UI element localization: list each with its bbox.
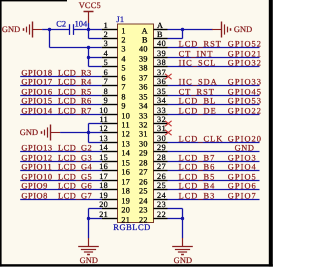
svg-text:40: 40 bbox=[157, 39, 166, 48]
svg-text:37: 37 bbox=[157, 68, 166, 77]
svg-text:GPIO22: GPIO22 bbox=[228, 107, 262, 116]
svg-text:LCD_R3: LCD_R3 bbox=[58, 69, 92, 78]
svg-text:6: 6 bbox=[121, 73, 125, 82]
svg-text:14: 14 bbox=[99, 143, 108, 152]
svg-text:40: 40 bbox=[139, 44, 148, 53]
svg-text:10: 10 bbox=[121, 111, 130, 120]
svg-text:27: 27 bbox=[139, 167, 148, 176]
svg-text:GPIO53: GPIO53 bbox=[228, 97, 262, 106]
svg-text:CT_INT: CT_INT bbox=[179, 50, 214, 59]
svg-text:LCD_R5: LCD_R5 bbox=[58, 88, 92, 97]
svg-text:9: 9 bbox=[121, 101, 125, 110]
svg-text:4: 4 bbox=[104, 49, 108, 58]
svg-text:18: 18 bbox=[121, 186, 130, 195]
svg-text:LCD_B6: LCD_B6 bbox=[179, 163, 216, 172]
svg-text:28: 28 bbox=[157, 153, 166, 162]
svg-text:31: 31 bbox=[157, 124, 166, 133]
svg-text:104: 104 bbox=[75, 19, 88, 28]
svg-text:GPIO15: GPIO15 bbox=[21, 97, 52, 106]
svg-text:GPIO7: GPIO7 bbox=[228, 192, 257, 201]
svg-text:13: 13 bbox=[121, 139, 130, 148]
svg-text:38: 38 bbox=[139, 63, 148, 72]
svg-text:25: 25 bbox=[157, 181, 166, 190]
svg-text:28: 28 bbox=[139, 158, 148, 167]
svg-text:GPIO3: GPIO3 bbox=[228, 154, 257, 163]
svg-text:18: 18 bbox=[99, 181, 108, 190]
svg-text:21: 21 bbox=[121, 215, 130, 224]
svg-text:36: 36 bbox=[139, 82, 148, 91]
svg-text:8: 8 bbox=[104, 87, 108, 96]
svg-text:12: 12 bbox=[99, 124, 108, 133]
svg-text:24: 24 bbox=[157, 191, 166, 200]
svg-text:LCD_R4: LCD_R4 bbox=[58, 78, 92, 87]
svg-text:35: 35 bbox=[139, 92, 148, 101]
svg-text:CT_RST: CT_RST bbox=[179, 88, 215, 97]
svg-text:33: 33 bbox=[139, 111, 148, 120]
svg-text:5: 5 bbox=[104, 58, 108, 67]
svg-text:15: 15 bbox=[121, 158, 130, 167]
svg-text:25: 25 bbox=[139, 186, 148, 195]
svg-text:3: 3 bbox=[121, 44, 125, 53]
svg-text:4: 4 bbox=[121, 54, 125, 63]
svg-text:J1: J1 bbox=[116, 15, 124, 24]
svg-text:LCD_G7: LCD_G7 bbox=[58, 192, 92, 201]
svg-text:LCD_G5: LCD_G5 bbox=[58, 173, 92, 182]
svg-text:26: 26 bbox=[139, 177, 148, 186]
svg-text:23: 23 bbox=[157, 200, 166, 209]
svg-text:39: 39 bbox=[157, 49, 166, 58]
svg-text:GPIO5: GPIO5 bbox=[228, 173, 257, 182]
svg-text:22: 22 bbox=[139, 215, 148, 224]
svg-text:27: 27 bbox=[157, 162, 166, 171]
svg-text:3: 3 bbox=[104, 39, 108, 48]
svg-text:13: 13 bbox=[99, 134, 108, 143]
svg-text:GPIO4: GPIO4 bbox=[228, 163, 257, 172]
svg-text:16: 16 bbox=[99, 162, 108, 171]
svg-text:24: 24 bbox=[139, 196, 148, 205]
svg-text:IIC_SDA: IIC_SDA bbox=[179, 78, 218, 87]
svg-text:7: 7 bbox=[104, 77, 108, 86]
svg-text:LCD_G4: LCD_G4 bbox=[58, 163, 92, 172]
svg-text:LCD_G2: LCD_G2 bbox=[58, 144, 92, 153]
svg-text:GPIO9: GPIO9 bbox=[21, 182, 47, 191]
svg-text:19: 19 bbox=[99, 191, 108, 200]
svg-text:GND: GND bbox=[234, 25, 252, 34]
svg-text:34: 34 bbox=[157, 96, 166, 105]
svg-text:LCD_B3: LCD_B3 bbox=[179, 192, 216, 201]
svg-text:IIC_SCL: IIC_SCL bbox=[179, 59, 217, 68]
svg-text:20: 20 bbox=[99, 200, 108, 209]
svg-text:GPIO32: GPIO32 bbox=[228, 59, 262, 68]
svg-text:14: 14 bbox=[121, 148, 130, 157]
svg-text:31: 31 bbox=[139, 129, 148, 138]
svg-text:GPIO6: GPIO6 bbox=[228, 182, 257, 191]
svg-text:GPIO13: GPIO13 bbox=[21, 144, 52, 153]
svg-text:GPIO52: GPIO52 bbox=[228, 40, 262, 49]
svg-text:7: 7 bbox=[121, 82, 125, 91]
svg-text:29: 29 bbox=[139, 148, 148, 157]
svg-text:GPIO33: GPIO33 bbox=[228, 78, 262, 87]
svg-text:32: 32 bbox=[139, 120, 148, 129]
svg-text:GPIO18: GPIO18 bbox=[21, 69, 52, 78]
svg-text:29: 29 bbox=[157, 143, 166, 152]
svg-text:GND: GND bbox=[80, 256, 98, 265]
svg-text:15: 15 bbox=[99, 153, 108, 162]
svg-text:VCC5: VCC5 bbox=[79, 1, 101, 10]
svg-text:2: 2 bbox=[104, 30, 108, 39]
svg-text:5: 5 bbox=[121, 63, 125, 72]
svg-text:22: 22 bbox=[157, 210, 166, 219]
svg-text:LCD_G6: LCD_G6 bbox=[58, 182, 92, 191]
svg-text:32: 32 bbox=[157, 115, 166, 124]
svg-text:LCD_B5: LCD_B5 bbox=[179, 173, 216, 182]
svg-text:30: 30 bbox=[157, 134, 166, 143]
svg-text:LCD_CLK: LCD_CLK bbox=[179, 135, 224, 144]
svg-text:39: 39 bbox=[139, 54, 148, 63]
svg-text:11: 11 bbox=[121, 120, 129, 129]
svg-text:20: 20 bbox=[121, 205, 130, 214]
svg-text:GND: GND bbox=[235, 144, 255, 153]
svg-text:16: 16 bbox=[121, 167, 130, 176]
svg-text:2: 2 bbox=[121, 35, 125, 44]
svg-text:21: 21 bbox=[99, 210, 108, 219]
svg-text:1: 1 bbox=[121, 26, 125, 35]
svg-text:37: 37 bbox=[139, 73, 148, 82]
svg-text:38: 38 bbox=[157, 58, 166, 67]
svg-text:12: 12 bbox=[121, 129, 130, 138]
svg-text:GPIO14: GPIO14 bbox=[21, 107, 52, 116]
svg-text:9: 9 bbox=[104, 96, 108, 105]
svg-text:GND: GND bbox=[174, 256, 192, 265]
svg-text:GND: GND bbox=[2, 25, 20, 34]
svg-text:LCD_G3: LCD_G3 bbox=[58, 154, 92, 163]
svg-text:GPIO10: GPIO10 bbox=[21, 173, 52, 182]
svg-text:GPIO17: GPIO17 bbox=[21, 78, 52, 87]
svg-text:35: 35 bbox=[157, 87, 166, 96]
svg-text:LCD_RST: LCD_RST bbox=[179, 40, 222, 49]
svg-text:GPIO12: GPIO12 bbox=[21, 154, 52, 163]
svg-text:A: A bbox=[157, 21, 163, 30]
svg-text:GPIO21: GPIO21 bbox=[228, 50, 262, 59]
svg-text:30: 30 bbox=[139, 139, 148, 148]
svg-text:A: A bbox=[142, 26, 148, 35]
svg-text:34: 34 bbox=[139, 101, 148, 110]
svg-text:GND: GND bbox=[20, 128, 38, 137]
svg-text:36: 36 bbox=[157, 77, 166, 86]
svg-text:GPIO20: GPIO20 bbox=[228, 135, 262, 144]
svg-text:26: 26 bbox=[157, 172, 166, 181]
svg-text:GPIO45: GPIO45 bbox=[228, 88, 262, 97]
svg-text:1: 1 bbox=[104, 21, 108, 30]
svg-text:8: 8 bbox=[121, 92, 125, 101]
svg-text:GPIO11: GPIO11 bbox=[21, 163, 52, 172]
svg-text:19: 19 bbox=[121, 196, 130, 205]
svg-text:17: 17 bbox=[99, 172, 108, 181]
svg-text:LCD_B4: LCD_B4 bbox=[179, 182, 216, 191]
svg-text:LCD_DE: LCD_DE bbox=[179, 107, 217, 116]
svg-text:GPIO8: GPIO8 bbox=[21, 192, 47, 201]
svg-text:23: 23 bbox=[139, 205, 148, 214]
svg-text:LCD_BL: LCD_BL bbox=[179, 97, 217, 106]
svg-text:6: 6 bbox=[104, 68, 108, 77]
svg-text:17: 17 bbox=[121, 177, 130, 186]
svg-text:LCD_R6: LCD_R6 bbox=[58, 97, 92, 106]
svg-text:C2: C2 bbox=[56, 19, 66, 28]
svg-text:LCD_B7: LCD_B7 bbox=[179, 154, 216, 163]
svg-text:B: B bbox=[157, 30, 163, 39]
svg-text:GPIO16: GPIO16 bbox=[21, 88, 52, 97]
svg-text:B: B bbox=[142, 35, 148, 44]
svg-text:LCD_R7: LCD_R7 bbox=[58, 107, 92, 116]
svg-text:33: 33 bbox=[157, 106, 166, 115]
